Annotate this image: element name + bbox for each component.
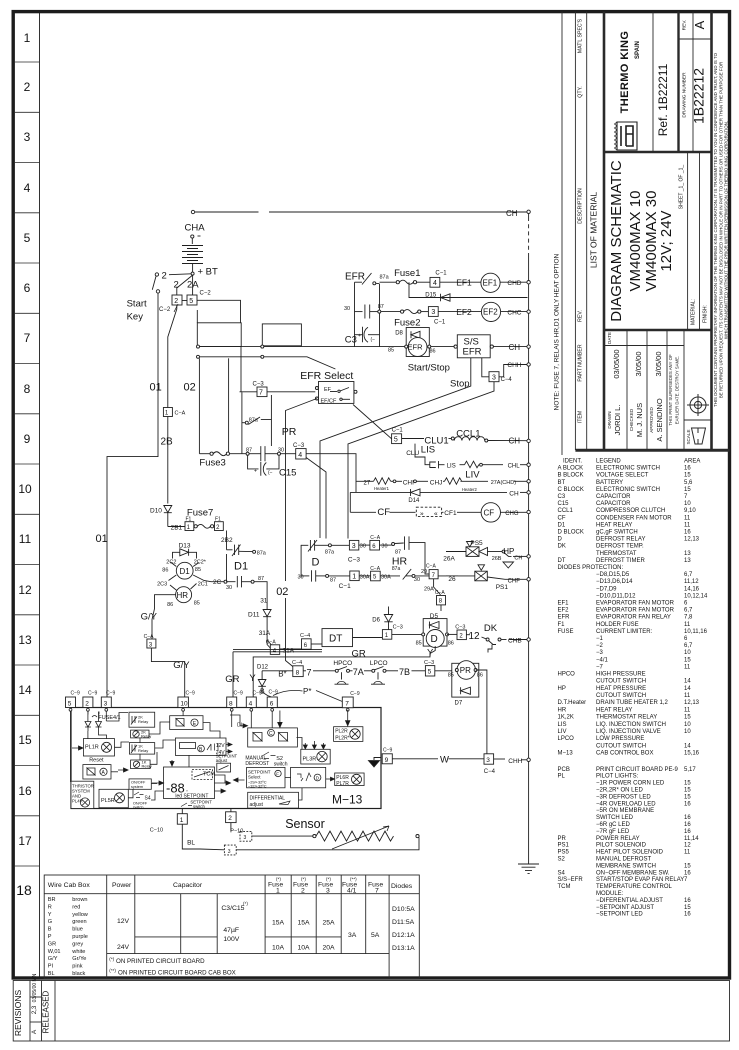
connector box 2 C-3 dk	[457, 630, 466, 640]
connector box 9 C-9	[369, 754, 393, 767]
svg-text:EF1: EF1	[483, 279, 498, 288]
svg-text:8: 8	[229, 700, 233, 707]
svg-text:CHH: CHH	[508, 758, 522, 765]
svg-text:2C1: 2C1	[198, 582, 208, 588]
svg-text:C−3: C−3	[455, 625, 465, 631]
svg-text:5: 5	[189, 298, 193, 305]
svg-text:C−4: C−4	[300, 633, 310, 639]
svg-text:−6R gC LED: −6R gC LED	[596, 822, 631, 828]
svg-text:C−A: C−A	[426, 564, 437, 570]
svg-text:MEMBRANE SWITCH: MEMBRANE SWITCH	[596, 863, 656, 869]
connector box 3 C-4 w	[484, 754, 494, 764]
svg-text:LEGEND: LEGEND	[596, 459, 621, 465]
wires HR D1 terminals	[171, 562, 177, 567]
svg-text:13: 13	[684, 558, 691, 564]
wires internal verticals from connectors	[70, 711, 72, 744]
svg-text:TCM: TCM	[558, 884, 571, 890]
svg-text:−D13,D6,D14: −D13,D6,D14	[596, 579, 633, 585]
svg-text:Y: Y	[427, 648, 434, 659]
svg-text:LIST OF MATERIAL: LIST OF MATERIAL	[589, 192, 599, 268]
fuse Fuse3	[199, 453, 210, 455]
svg-text:START/STOP EVAP FAN RELAY: START/STOP EVAP FAN RELAY	[596, 877, 684, 883]
wire bus y356.8	[198, 357, 335, 369]
pilot light PL6R PL7R box	[335, 773, 364, 786]
svg-text:−3: −3	[596, 650, 604, 656]
svg-text:14: 14	[18, 683, 32, 697]
setpoint switch	[181, 803, 192, 807]
svg-text:CHF: CHF	[508, 579, 521, 585]
M-13 internals	[71, 710, 365, 809]
svg-text:30: 30	[278, 448, 284, 454]
svg-text:(**): (**)	[109, 968, 116, 973]
right band: list of material column	[562, 12, 730, 455]
svg-text:8: 8	[296, 670, 300, 677]
svg-text:PILOT LIGHTS:: PILOT LIGHTS:	[596, 774, 639, 780]
pilot light PL5R box	[99, 789, 128, 807]
revisions strip	[13, 981, 729, 1042]
svg-text:B: B	[260, 689, 265, 696]
svg-text:31A: 31A	[259, 630, 271, 637]
svg-text:PL1R: PL1R	[85, 745, 99, 751]
svg-text:PI: PI	[48, 964, 54, 970]
svg-text:«: «	[434, 510, 438, 517]
svg-text:VM400MAX 10: VM400MAX 10	[627, 191, 644, 292]
net 02 line	[286, 399, 317, 582]
svg-text:85: 85	[416, 641, 422, 647]
svg-text:Fuse1: Fuse1	[394, 268, 420, 279]
svg-text:4: 4	[433, 280, 437, 287]
svg-text:IDENT.: IDENT.	[563, 459, 582, 465]
svg-text:switch: switch	[133, 805, 144, 809]
svg-text:black: black	[72, 971, 85, 977]
svg-text:2A: 2A	[187, 280, 199, 291]
svg-text:CF: CF	[558, 515, 566, 521]
wire box2 down slant to C-A box	[168, 305, 177, 408]
svg-text:THIS PRINT SUPERSEDES ANY OF: THIS PRINT SUPERSEDES ANY OF	[668, 354, 673, 426]
thristor box	[71, 781, 94, 808]
svg-text:CHL: CHL	[508, 463, 521, 469]
svg-text:−4/1: −4/1	[596, 657, 609, 663]
solenoid PS5	[446, 551, 466, 553]
svg-text:PRINT CIRCUIT BOARD PE-9: PRINT CIRCUIT BOARD PE-9	[596, 767, 678, 773]
svg-text:P*: P*	[303, 687, 311, 696]
sensor circuit	[177, 809, 419, 855]
svg-text:31A: 31A	[283, 648, 295, 655]
svg-text:Relay: Relay	[142, 764, 152, 769]
setpoint select F box	[247, 767, 285, 787]
svg-text:C−A: C−A	[144, 634, 155, 640]
svg-text:Fuse3: Fuse3	[199, 457, 225, 468]
svg-text:CHD: CHD	[507, 280, 521, 287]
svg-text:SHEET _1_ OF _1_: SHEET _1_ OF _1_	[679, 165, 685, 210]
svg-text:C−9: C−9	[269, 690, 279, 696]
svg-text:BATTERY: BATTERY	[596, 480, 623, 486]
svg-text:16: 16	[684, 870, 691, 876]
svg-text:16: 16	[684, 466, 691, 472]
svg-text:29A: 29A	[424, 587, 434, 593]
node top-left	[191, 210, 194, 213]
svg-text:86: 86	[167, 602, 173, 608]
svg-text:17: 17	[18, 834, 32, 848]
svg-text:1: 1	[180, 817, 184, 824]
svg-text:CHI: CHI	[403, 479, 414, 486]
svg-text:15: 15	[684, 715, 691, 721]
svg-text:HEAT RELAY: HEAT RELAY	[596, 707, 632, 713]
battery BT	[191, 235, 194, 238]
svg-text:EVAPORATOR FAN RELAY: EVAPORATOR FAN RELAY	[596, 615, 671, 621]
svg-text:CAB CONTROL BOX: CAB CONTROL BOX	[596, 751, 653, 757]
svg-text:CUTOUT SWITCH: CUTOUT SWITCH	[596, 679, 646, 685]
wire Y from D coil	[253, 646, 435, 697]
svg-text:D1: D1	[180, 567, 191, 576]
switch PR 87a	[242, 422, 245, 424]
capacitor C15	[248, 455, 259, 469]
wire vertical rect1 to PR rail	[240, 347, 242, 392]
svg-text:LIV: LIV	[558, 729, 567, 735]
svg-text:85: 85	[194, 601, 200, 607]
switch LPCO	[364, 670, 372, 672]
motor EF1	[481, 273, 500, 292]
svg-text:A BLOCK: A BLOCK	[558, 466, 584, 472]
svg-text:12: 12	[469, 631, 481, 642]
svg-text:1: 1	[276, 888, 280, 895]
svg-text:+ BT: + BT	[198, 267, 219, 278]
svg-text:15: 15	[684, 863, 691, 869]
wire CLU feed diagonal	[353, 405, 392, 439]
wire box5 right to rect1	[197, 300, 241, 323]
svg-text:D: D	[312, 557, 320, 569]
svg-text:11: 11	[19, 532, 32, 546]
svg-text:D15: D15	[425, 293, 437, 299]
svg-text:9: 9	[24, 432, 31, 446]
connector box 7 C-A	[429, 570, 438, 579]
svg-text:2: 2	[174, 280, 179, 291]
svg-text:S4: S4	[558, 870, 566, 876]
svg-text:BL: BL	[48, 971, 55, 977]
row grid lines	[14, 62, 40, 866]
disclaimer text column	[713, 52, 729, 407]
svg-text:1: 1	[352, 574, 356, 581]
svg-text:+: +	[358, 333, 361, 339]
svg-text:WHICH TRANSMITTED WITHOUT THE: WHICH TRANSMITTED WITHOUT THE PRIOR WRIT…	[724, 121, 729, 339]
svg-text:−2: −2	[596, 643, 604, 649]
pilot light PL2R box	[334, 727, 363, 742]
svg-text:D1: D1	[234, 561, 248, 573]
svg-text:Heater1: Heater1	[374, 486, 390, 491]
svg-text:C−2: C−2	[200, 291, 212, 297]
svg-text:30: 30	[381, 544, 387, 550]
svg-text:B*: B*	[278, 670, 286, 679]
svg-text:3: 3	[352, 543, 356, 550]
svg-text:M−13: M−13	[332, 793, 363, 807]
svg-text:03/05/00: 03/05/00	[612, 349, 621, 378]
svg-text:gC,gF SWITCH: gC,gF SWITCH	[596, 530, 638, 536]
svg-text:C−A: C−A	[266, 640, 277, 646]
svg-text:Start: Start	[127, 299, 147, 310]
svg-text:LIQ. INJECTION VALVE: LIQ. INJECTION VALVE	[596, 729, 661, 735]
svg-text:switch: switch	[193, 804, 206, 809]
svg-text:D13:1A: D13:1A	[392, 945, 415, 952]
svg-text:Capacitor: Capacitor	[173, 882, 203, 889]
svg-text:10: 10	[180, 700, 188, 707]
setpoint adjust slider	[217, 763, 231, 772]
wire diag from box4C3	[306, 458, 326, 539]
wire bus y346	[198, 346, 406, 348]
svg-text:LIS: LIS	[421, 445, 435, 456]
svg-text:DEFROST TEMP.: DEFROST TEMP.	[596, 544, 644, 550]
wire W row	[392, 758, 438, 760]
svg-text:A. SENDINO: A. SENDINO	[655, 398, 664, 442]
svg-text:85: 85	[388, 348, 394, 354]
svg-text:Ref. 1B22211: Ref. 1B22211	[656, 63, 670, 136]
svg-text:85: 85	[195, 567, 201, 573]
svg-text:LIS: LIS	[558, 722, 567, 728]
svg-text:16: 16	[18, 784, 32, 798]
svg-text:7: 7	[345, 701, 349, 708]
svg-text:GR: GR	[225, 674, 239, 685]
svg-text:Relay: Relay	[138, 748, 148, 753]
svg-text:W: W	[440, 754, 449, 765]
svg-text:3/05/00: 3/05/00	[634, 351, 643, 376]
svg-text:−SETPOINT LED: −SETPOINT LED	[596, 912, 643, 918]
svg-text:15A: 15A	[298, 920, 311, 927]
svg-text:2C3: 2C3	[157, 582, 167, 588]
svg-text:11: 11	[684, 707, 691, 713]
svg-text:12V; 24V: 12V; 24V	[658, 210, 675, 271]
svg-text:87a: 87a	[257, 551, 267, 557]
solenoid PS1	[446, 575, 458, 577]
svg-text:2: 2	[174, 298, 178, 305]
node a2	[197, 355, 200, 358]
svg-text:BL: BL	[187, 840, 195, 847]
svg-text:8: 8	[24, 382, 31, 396]
svg-text:87a: 87a	[325, 550, 335, 556]
svg-text:29: 29	[421, 569, 427, 575]
start key switch	[169, 273, 191, 276]
svg-text:PILOT SOLENOID: PILOT SOLENOID	[596, 843, 647, 849]
svg-text:THIS DOCUMENT CONTAINS PROPRIE: THIS DOCUMENT CONTAINS PROPRIETARY INFOR…	[713, 52, 718, 407]
svg-text:D12:1A: D12:1A	[392, 932, 415, 939]
svg-text:11: 11	[684, 622, 691, 628]
svg-text:4: 4	[24, 181, 31, 195]
svg-text:+: +	[254, 468, 257, 474]
svg-text:C−A: C−A	[175, 411, 186, 417]
svg-text:C3: C3	[558, 494, 566, 500]
svg-text:PS1: PS1	[558, 843, 570, 849]
svg-text:25A: 25A	[323, 920, 336, 927]
svg-text:PS1: PS1	[496, 584, 509, 591]
wire GR	[233, 649, 322, 651]
C block box	[248, 728, 298, 747]
svg-text:Wire Cab Box: Wire Cab Box	[48, 882, 91, 889]
svg-text:C BLOCK: C BLOCK	[558, 487, 584, 493]
svg-text:Y: Y	[249, 673, 256, 684]
svg-text:7: 7	[24, 331, 31, 345]
svg-text:10: 10	[18, 482, 32, 496]
svg-text:1: 1	[24, 31, 31, 45]
svg-text:30: 30	[298, 575, 304, 581]
svg-text:87a: 87a	[380, 274, 390, 280]
wire top bus	[193, 211, 259, 213]
svg-text:C−3: C−3	[393, 625, 403, 631]
resistor LIV zigzag	[465, 461, 480, 468]
svg-text:G/Y: G/Y	[141, 612, 158, 623]
svg-text:100V: 100V	[223, 936, 239, 943]
row A after box3	[359, 544, 370, 546]
svg-text:−D8,D15,D5: −D8,D15,D5	[596, 572, 630, 578]
svg-text:86: 86	[430, 349, 436, 355]
svg-text:13: 13	[18, 633, 32, 647]
svg-text:3: 3	[431, 309, 435, 316]
svg-text:7: 7	[375, 888, 379, 895]
svg-text:5: 5	[394, 437, 398, 444]
svg-text:B: B	[48, 927, 52, 933]
svg-text:12,13: 12,13	[684, 700, 700, 706]
svg-text:C3: C3	[345, 335, 357, 346]
svg-text:DK: DK	[484, 623, 498, 634]
svg-text:LPCO: LPCO	[558, 736, 575, 742]
svg-text:12V: 12V	[117, 918, 130, 925]
svg-text:2: 2	[228, 815, 232, 822]
svg-text:10: 10	[684, 729, 691, 735]
connector box 3 C-4	[489, 372, 499, 382]
svg-text:6: 6	[270, 700, 274, 707]
connector box 4 C-1	[430, 277, 440, 287]
svg-text:02: 02	[276, 586, 288, 598]
svg-text:15: 15	[684, 487, 691, 493]
svg-text:2B2: 2B2	[221, 537, 233, 544]
B block box	[175, 738, 226, 755]
svg-text:D10: D10	[150, 508, 162, 515]
Fuse1	[396, 281, 399, 284]
svg-text:10,12,14: 10,12,14	[684, 593, 708, 599]
svg-text:»: »	[420, 510, 424, 517]
differential adjust box	[248, 792, 299, 808]
svg-text:brown: brown	[72, 897, 87, 903]
svg-text:Diodes: Diodes	[391, 883, 413, 890]
svg-text:C−1: C−1	[339, 583, 351, 590]
svg-text:C−3: C−3	[293, 443, 305, 449]
svg-text:GR: GR	[48, 941, 56, 947]
svg-text:M. J. NUS: M. J. NUS	[635, 403, 644, 437]
svg-text:CH: CH	[509, 437, 521, 446]
svg-text:2B: 2B	[161, 437, 174, 448]
svg-text:12,13: 12,13	[684, 537, 700, 543]
connector box 1 C-1	[350, 571, 359, 581]
switch HPCO	[335, 669, 338, 672]
svg-text:C: C	[269, 731, 273, 737]
svg-text:purple: purple	[72, 934, 88, 940]
svg-text:5: 5	[68, 700, 72, 707]
svg-text:CCL1: CCL1	[456, 429, 480, 440]
contact D 30-87	[301, 575, 309, 577]
svg-text:DRAIN TUBE HEATER 1,2: DRAIN TUBE HEATER 1,2	[596, 700, 668, 706]
svg-text:15: 15	[684, 794, 691, 800]
svg-text:M−13: M−13	[558, 751, 574, 757]
svg-text:ON−OFF MEMBRANE SW.: ON−OFF MEMBRANE SW.	[596, 870, 670, 876]
E block box	[170, 716, 203, 730]
svg-text:CHJ: CHJ	[430, 479, 443, 486]
svg-text:EF/CF: EF/CF	[321, 398, 338, 404]
svg-text:10,11,16: 10,11,16	[684, 629, 708, 635]
svg-text:27A(CHD): 27A(CHD)	[491, 480, 517, 486]
svg-text:9: 9	[385, 757, 389, 764]
svg-text:D7: D7	[455, 701, 463, 707]
svg-text:12V: 12V	[216, 743, 226, 749]
node battery plus	[191, 272, 194, 275]
svg-text:20A: 20A	[323, 945, 336, 952]
on/off system box	[129, 779, 151, 789]
svg-text:D1: D1	[558, 522, 566, 528]
svg-text:CH: CH	[509, 491, 519, 498]
svg-text:26: 26	[448, 576, 456, 583]
svg-text:HP: HP	[558, 686, 566, 692]
svg-text:C−9: C−9	[383, 748, 393, 754]
svg-text:CHG: CHG	[505, 511, 519, 517]
relay coil HR	[176, 587, 192, 603]
svg-text:16: 16	[684, 530, 691, 536]
svg-text:C−A: C−A	[435, 590, 446, 596]
wire heater feed	[306, 454, 356, 493]
svg-text:grey: grey	[72, 941, 83, 947]
svg-text:7: 7	[307, 668, 312, 678]
svg-text:LIQ. INJECTION SWITCH: LIQ. INJECTION SWITCH	[596, 722, 666, 728]
svg-text:S/S−EFR: S/S−EFR	[558, 877, 584, 883]
svg-text:DT: DT	[329, 634, 342, 645]
row B after box1	[359, 575, 370, 577]
svg-text:DRAWN: DRAWN	[607, 411, 612, 428]
svg-text:(−: (−	[268, 470, 273, 476]
svg-text:11: 11	[684, 522, 691, 528]
svg-text:CH: CH	[514, 556, 522, 562]
svg-text:D5: D5	[430, 613, 439, 620]
svg-text:HPCO: HPCO	[333, 660, 352, 667]
svg-text:15A: 15A	[272, 920, 285, 927]
svg-text:13: 13	[684, 551, 691, 557]
svg-text:C−1: C−1	[434, 320, 446, 326]
svg-text:D13: D13	[179, 543, 191, 550]
svg-text:CONDENSER FAN MOTOR: CONDENSER FAN MOTOR	[596, 515, 672, 521]
wire to fuse7	[168, 526, 185, 528]
svg-text:6,7: 6,7	[684, 643, 693, 649]
svg-text:CHB: CHB	[508, 637, 522, 644]
svg-text:11,14: 11,14	[684, 836, 699, 842]
timer DT box	[322, 629, 353, 647]
svg-text:Sensor: Sensor	[285, 817, 325, 831]
wire box5 bottom stub	[196, 310, 198, 323]
svg-text:87a: 87a	[249, 418, 259, 424]
svg-text:F1: F1	[215, 516, 221, 522]
svg-text:Key: Key	[127, 312, 144, 323]
wire 2C node row	[211, 581, 236, 583]
svg-text:30: 30	[344, 306, 350, 312]
svg-text:87a: 87a	[392, 566, 401, 572]
svg-text:EVAPORATOR FAN MOTOR: EVAPORATOR FAN MOTOR	[596, 608, 675, 614]
svg-text:11: 11	[684, 515, 691, 521]
svg-text:ELECTRONIC SWITCH: ELECTRONIC SWITCH	[596, 487, 660, 493]
svg-text:P−10: P−10	[230, 829, 243, 835]
svg-text:BR: BR	[48, 897, 56, 903]
rect block A	[197, 323, 241, 347]
connector box 2 C-2	[172, 295, 182, 305]
svg-text:yellow: yellow	[72, 912, 89, 918]
svg-text:W,01: W,01	[48, 949, 61, 955]
svg-text:16: 16	[684, 822, 691, 828]
svg-text:G: G	[48, 919, 52, 925]
svg-text:2,3: 2,3	[32, 1005, 38, 1014]
connector box 4 C-A dt	[270, 645, 279, 655]
wire right bus CH	[528, 214, 530, 218]
